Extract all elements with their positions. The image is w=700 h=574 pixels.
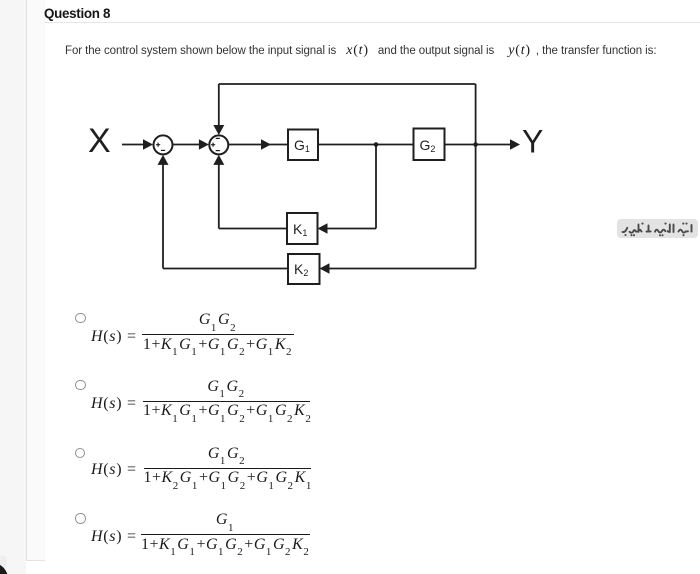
svg-text:X: X bbox=[88, 122, 111, 160]
svg-text:Y: Y bbox=[522, 124, 543, 160]
